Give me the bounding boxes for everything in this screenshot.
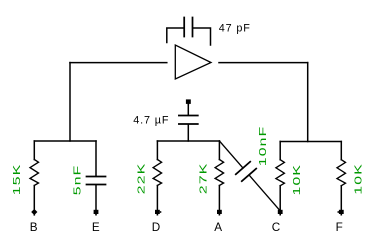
wire right bracket of feedback capacitor	[194, 28, 211, 45]
svg-text:E: E	[92, 221, 100, 234]
wire input horizontal	[70, 62, 167, 64]
wire 27K top lead	[218, 141, 220, 160]
wire right vertical	[307, 63, 309, 142]
wire 10K-F top lead	[340, 142, 342, 160]
wire 15K top lead	[33, 141, 35, 160]
capacitor 47pF	[184, 18, 192, 37]
wire 5nF bottom lead	[95, 185, 97, 210]
resistor 27K	[215, 160, 224, 186]
svg-text:10nF: 10nF	[257, 126, 269, 167]
wire output horizontal	[219, 62, 308, 64]
wire left rail	[34, 140, 96, 142]
wire 15K bottom lead	[33, 186, 35, 210]
resistor 10K C	[276, 160, 285, 186]
svg-text:F: F	[336, 221, 343, 234]
wire 22K top lead	[156, 141, 158, 160]
svg-text:A: A	[214, 221, 222, 234]
terminal C	[278, 210, 283, 216]
wire stub node to 4.7uF	[187, 104, 189, 115]
resistor 22K	[153, 160, 162, 186]
wire 10K-F bottom lead	[340, 186, 342, 210]
wire left bracket of feedback capacitor	[167, 28, 183, 43]
svg-text:B: B	[30, 221, 38, 234]
svg-text:27K: 27K	[197, 162, 209, 194]
svg-text:10K: 10K	[352, 163, 364, 195]
terminal A	[217, 210, 222, 216]
node top of 4.7uF	[186, 99, 191, 105]
op-amp U1	[175, 45, 211, 79]
svg-text:22K: 22K	[135, 163, 147, 195]
resistor 10K F	[337, 160, 346, 186]
wire left vertical	[69, 63, 71, 141]
svg-text:10K: 10K	[291, 164, 303, 196]
terminal E	[94, 210, 99, 216]
wire 5nF top lead	[95, 141, 97, 176]
svg-text:C: C	[272, 221, 280, 234]
wire 10nF lower diagonal lead	[249, 175, 280, 210]
wire 10K-C top lead	[279, 142, 281, 160]
wire right rail	[280, 141, 341, 143]
wire 4.7uF to middle rail	[187, 125, 189, 142]
svg-text:47 pF: 47 pF	[219, 23, 251, 35]
svg-text:5nF: 5nF	[71, 165, 83, 196]
wire 10nF upper diagonal lead	[219, 141, 243, 168]
resistor 15K	[30, 160, 39, 186]
wire 10K-C bottom lead	[279, 186, 281, 210]
wire middle rail	[157, 140, 219, 142]
wire 22K bottom lead	[156, 186, 158, 210]
svg-text:4.7 µF: 4.7 µF	[133, 115, 169, 127]
svg-text:D: D	[152, 221, 160, 234]
terminal D	[155, 210, 161, 216]
wire 27K bottom lead	[218, 186, 220, 210]
svg-text:15K: 15K	[11, 164, 23, 196]
terminal F	[338, 210, 344, 216]
capacitor 5nF	[87, 177, 106, 185]
capacitor 10nF	[236, 162, 256, 182]
capacitor C 4.7uF	[179, 116, 198, 125]
terminal B	[31, 209, 37, 216]
